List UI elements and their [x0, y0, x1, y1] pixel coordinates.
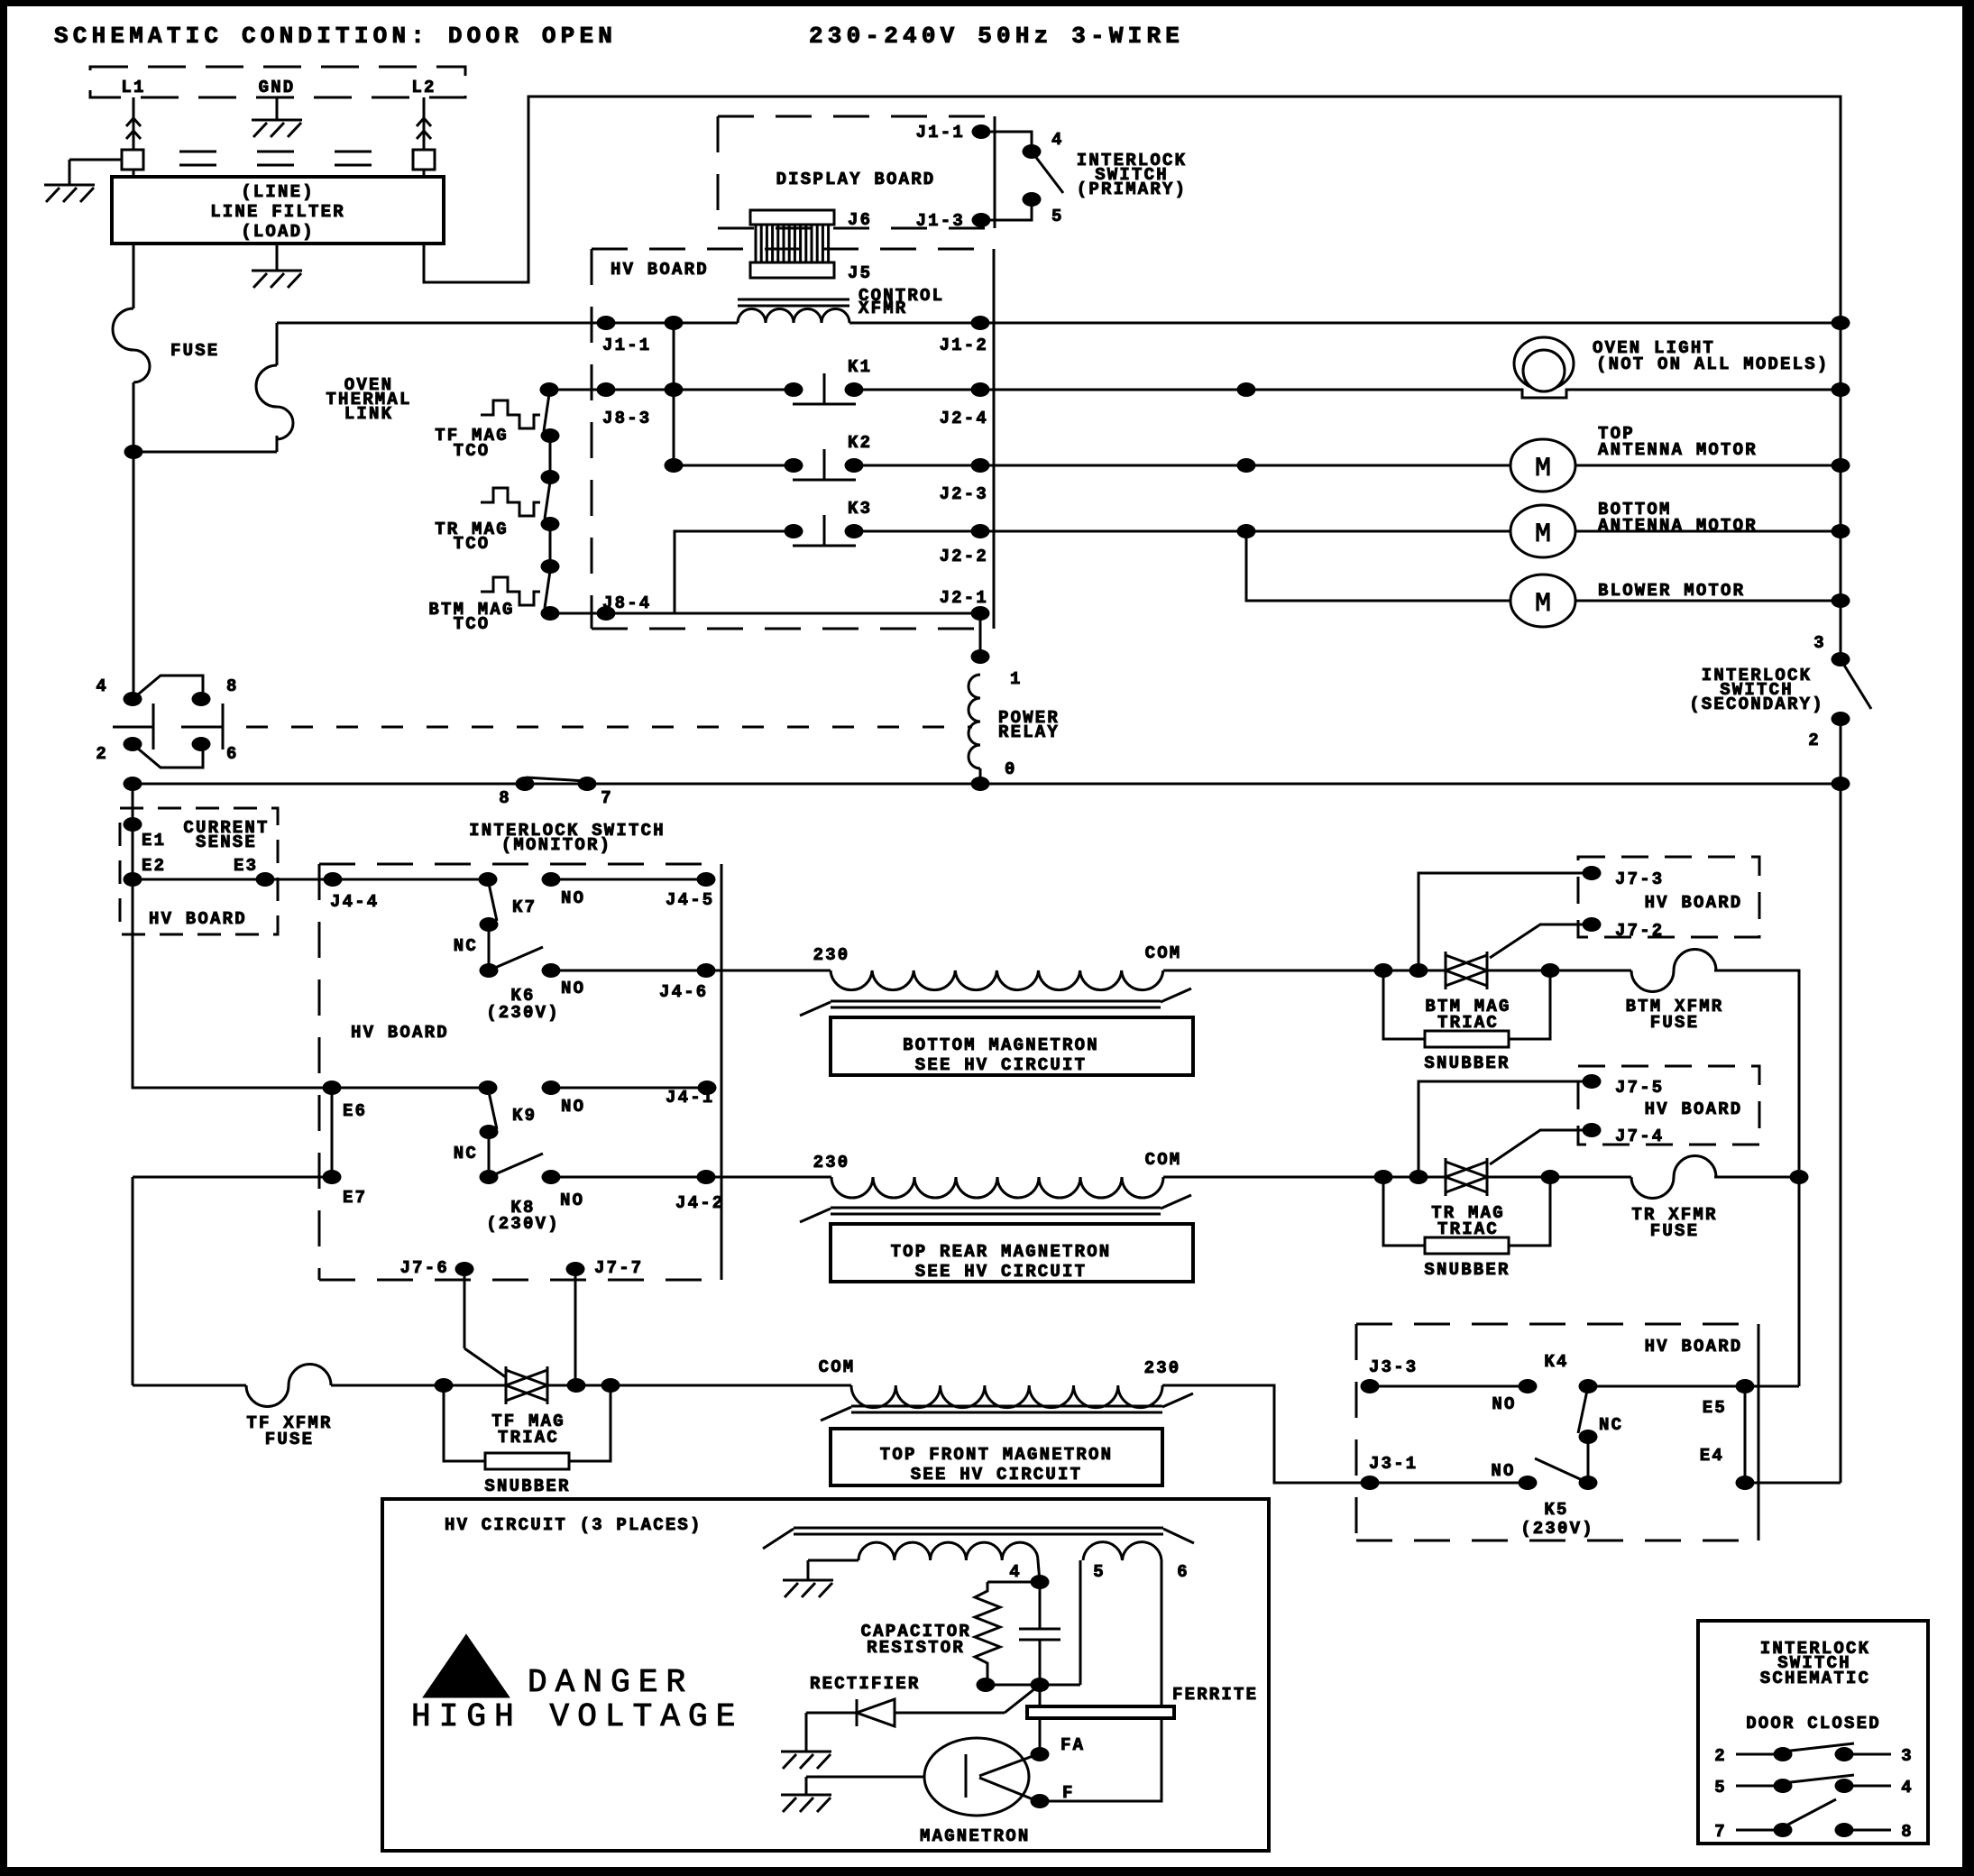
- svg-text:LINE FILTER: LINE FILTER: [210, 202, 345, 222]
- svg-text:HV CIRCUIT (3 PLACES): HV CIRCUIT (3 PLACES): [445, 1515, 702, 1535]
- svg-text:E6: E6: [343, 1101, 367, 1121]
- svg-text:J7-7: J7-7: [594, 1258, 643, 1278]
- svg-text:J4-4: J4-4: [330, 892, 379, 912]
- svg-text:J7-2: J7-2: [1615, 921, 1664, 941]
- svg-text:COM: COM: [1145, 943, 1182, 963]
- svg-text:3: 3: [1901, 1746, 1914, 1766]
- svg-text:HV BOARD: HV BOARD: [149, 909, 247, 929]
- svg-text:3: 3: [1813, 633, 1826, 653]
- svg-text:E3: E3: [234, 856, 258, 876]
- svg-text:J4-5: J4-5: [666, 890, 714, 910]
- svg-text:BLOWER MOTOR: BLOWER MOTOR: [1598, 581, 1745, 601]
- svg-text:TRIAC: TRIAC: [498, 1428, 559, 1448]
- svg-text:230: 230: [813, 1153, 850, 1172]
- svg-text:L2: L2: [411, 78, 436, 97]
- svg-text:FERRITE: FERRITE: [1172, 1685, 1258, 1705]
- svg-text:RECTIFIER: RECTIFIER: [810, 1674, 920, 1694]
- svg-text:(PRIMARY): (PRIMARY): [1077, 179, 1187, 199]
- svg-text:SNUBBER: SNUBBER: [1424, 1260, 1510, 1280]
- svg-text:J2-3: J2-3: [940, 484, 988, 504]
- svg-text:TOP FRONT MAGNETRON: TOP FRONT MAGNETRON: [880, 1445, 1113, 1465]
- svg-text:5: 5: [1093, 1562, 1106, 1582]
- svg-text:NO: NO: [561, 979, 585, 998]
- svg-text:DOOR CLOSED: DOOR CLOSED: [1746, 1714, 1881, 1733]
- svg-text:TCO: TCO: [454, 614, 491, 634]
- svg-text:SNUBBER: SNUBBER: [484, 1476, 570, 1496]
- svg-text:TOP REAR MAGNETRON: TOP REAR MAGNETRON: [891, 1242, 1112, 1262]
- svg-text:E5: E5: [1703, 1398, 1727, 1418]
- svg-text:J4-1: J4-1: [666, 1088, 714, 1108]
- svg-text:DISPLAY BOARD: DISPLAY BOARD: [776, 170, 936, 189]
- svg-text:J3-3: J3-3: [1369, 1357, 1418, 1377]
- svg-text:NO: NO: [561, 1097, 585, 1117]
- svg-text:K1: K1: [848, 357, 872, 377]
- svg-text:RESISTOR: RESISTOR: [867, 1638, 965, 1658]
- svg-text:M: M: [1535, 520, 1551, 550]
- svg-text:(MONITOR): (MONITOR): [501, 835, 611, 855]
- svg-text:TCO: TCO: [454, 534, 491, 554]
- svg-text:E1: E1: [142, 831, 166, 851]
- svg-text:E7: E7: [343, 1188, 367, 1208]
- svg-text:E4: E4: [1700, 1446, 1724, 1466]
- svg-text:BOTTOM MAGNETRON: BOTTOM MAGNETRON: [903, 1035, 1099, 1055]
- svg-text:DANGER: DANGER: [528, 1664, 693, 1701]
- svg-text:4: 4: [1051, 130, 1064, 150]
- svg-text:MAGNETRON: MAGNETRON: [920, 1826, 1030, 1846]
- svg-text:4: 4: [1009, 1562, 1022, 1582]
- svg-text:NC: NC: [454, 936, 478, 956]
- svg-text:(LOAD): (LOAD): [241, 222, 315, 242]
- svg-text:RELAY: RELAY: [998, 722, 1060, 742]
- svg-text:FUSE: FUSE: [170, 341, 219, 361]
- svg-text:HV BOARD: HV BOARD: [1645, 1099, 1743, 1119]
- svg-text:M: M: [1535, 589, 1551, 620]
- svg-text:SCHEMATIC: SCHEMATIC: [1760, 1669, 1870, 1688]
- svg-text:SEE HV CIRCUIT: SEE HV CIRCUIT: [911, 1465, 1082, 1485]
- svg-text:J6: J6: [848, 210, 872, 230]
- svg-text:FUSE: FUSE: [1650, 1013, 1699, 1033]
- svg-text:NO: NO: [1491, 1461, 1515, 1481]
- svg-text:J2-2: J2-2: [940, 547, 988, 566]
- svg-text:1: 1: [1010, 669, 1023, 689]
- svg-text:J8-3: J8-3: [602, 409, 651, 428]
- svg-text:FA: FA: [1060, 1735, 1085, 1755]
- svg-text:ANTENNA MOTOR: ANTENNA MOTOR: [1598, 440, 1758, 460]
- svg-text:(230V): (230V): [1520, 1519, 1594, 1539]
- svg-text:0: 0: [1005, 759, 1017, 779]
- svg-text:(SECONDARY): (SECONDARY): [1689, 694, 1824, 714]
- svg-text:J3-1: J3-1: [1369, 1454, 1418, 1474]
- svg-text:230-240V 50Hz 3-WIRE: 230-240V 50Hz 3-WIRE: [809, 23, 1184, 50]
- svg-text:7: 7: [1714, 1822, 1727, 1842]
- svg-text:COM: COM: [1145, 1150, 1182, 1170]
- svg-text:K2: K2: [848, 433, 872, 453]
- svg-text:FUSE: FUSE: [265, 1430, 314, 1449]
- svg-text:J4-2: J4-2: [675, 1193, 724, 1213]
- svg-text:HV BOARD: HV BOARD: [1645, 893, 1743, 913]
- svg-text:HV BOARD: HV BOARD: [1645, 1337, 1743, 1356]
- svg-text:L1: L1: [121, 78, 145, 97]
- svg-text:F: F: [1062, 1783, 1075, 1803]
- svg-text:K3: K3: [848, 499, 872, 519]
- svg-text:J8-4: J8-4: [602, 593, 651, 613]
- svg-text:2: 2: [96, 744, 108, 764]
- svg-text:SENSE: SENSE: [196, 832, 257, 852]
- svg-text:J1-1: J1-1: [602, 336, 651, 355]
- svg-text:6: 6: [226, 744, 239, 764]
- svg-text:NC: NC: [454, 1144, 478, 1163]
- svg-text:J7-4: J7-4: [1615, 1127, 1664, 1146]
- svg-text:FUSE: FUSE: [1650, 1221, 1699, 1241]
- svg-text:J5: J5: [848, 263, 872, 283]
- svg-text:SEE HV CIRCUIT: SEE HV CIRCUIT: [915, 1262, 1087, 1282]
- svg-text:(230V): (230V): [486, 1214, 560, 1234]
- svg-text:230: 230: [813, 945, 850, 965]
- svg-text:COM: COM: [819, 1357, 856, 1377]
- svg-text:J1-3: J1-3: [916, 211, 965, 231]
- svg-text:J2-1: J2-1: [940, 588, 988, 608]
- svg-text:GND: GND: [259, 78, 296, 97]
- svg-text:2: 2: [1714, 1746, 1727, 1766]
- svg-text:J1-2: J1-2: [940, 336, 988, 355]
- svg-text:K7: K7: [512, 897, 537, 917]
- svg-text:TCO: TCO: [454, 441, 491, 461]
- svg-text:J1-1: J1-1: [916, 123, 965, 143]
- svg-text:J7-6: J7-6: [400, 1258, 449, 1278]
- svg-text:J2-4: J2-4: [940, 409, 988, 428]
- svg-text:K4: K4: [1544, 1352, 1568, 1372]
- svg-text:5: 5: [1714, 1778, 1727, 1798]
- svg-text:6: 6: [1177, 1562, 1189, 1582]
- svg-text:M: M: [1535, 454, 1551, 484]
- svg-text:SNUBBER: SNUBBER: [1424, 1053, 1510, 1073]
- svg-text:SEE HV CIRCUIT: SEE HV CIRCUIT: [915, 1055, 1087, 1075]
- svg-text:(230V): (230V): [486, 1003, 560, 1023]
- svg-text:HV BOARD: HV BOARD: [351, 1023, 449, 1043]
- svg-text:SCHEMATIC CONDITION: DOOR OPEN: SCHEMATIC CONDITION: DOOR OPEN: [54, 23, 617, 50]
- svg-text:HIGH VOLTAGE: HIGH VOLTAGE: [411, 1698, 743, 1735]
- svg-text:J7-5: J7-5: [1615, 1078, 1664, 1098]
- svg-text:NO: NO: [561, 888, 585, 908]
- svg-text:2: 2: [1808, 731, 1821, 750]
- svg-text:J4-6: J4-6: [659, 982, 708, 1002]
- svg-text:NC: NC: [1599, 1415, 1623, 1435]
- svg-text:230: 230: [1144, 1358, 1181, 1378]
- svg-text:(LINE): (LINE): [241, 182, 315, 202]
- svg-text:J7-3: J7-3: [1615, 869, 1664, 889]
- svg-text:HV BOARD: HV BOARD: [611, 260, 709, 280]
- svg-text:8: 8: [1901, 1822, 1914, 1842]
- svg-text:K5: K5: [1544, 1500, 1568, 1520]
- svg-text:E2: E2: [142, 856, 166, 876]
- svg-text:ANTENNA MOTOR: ANTENNA MOTOR: [1598, 516, 1758, 536]
- svg-text:XFMR: XFMR: [858, 299, 907, 318]
- svg-text:4: 4: [96, 676, 108, 696]
- svg-text:NO: NO: [560, 1191, 584, 1210]
- svg-text:NO: NO: [1492, 1394, 1516, 1414]
- svg-text:8: 8: [226, 676, 239, 696]
- svg-text:K9: K9: [512, 1106, 537, 1126]
- svg-text:LINK: LINK: [344, 404, 393, 424]
- svg-text:(NOT ON ALL MODELS): (NOT ON ALL MODELS): [1596, 354, 1829, 374]
- svg-text:7: 7: [601, 788, 613, 808]
- svg-text:8: 8: [499, 788, 511, 808]
- svg-text:4: 4: [1901, 1778, 1914, 1798]
- svg-text:5: 5: [1051, 207, 1064, 226]
